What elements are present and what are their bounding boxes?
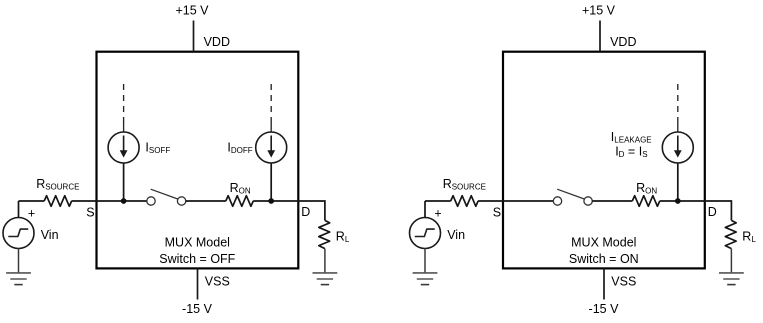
svg-text:ISOFF: ISOFF	[145, 140, 170, 155]
svg-text:Switch = ON: Switch = ON	[569, 252, 639, 266]
svg-text:Switch = OFF: Switch = OFF	[159, 252, 235, 266]
svg-text:IDOFF: IDOFF	[227, 140, 252, 155]
svg-text:ILEAKAGE: ILEAKAGE	[611, 130, 652, 145]
svg-text:ID = IS: ID = IS	[615, 144, 647, 159]
